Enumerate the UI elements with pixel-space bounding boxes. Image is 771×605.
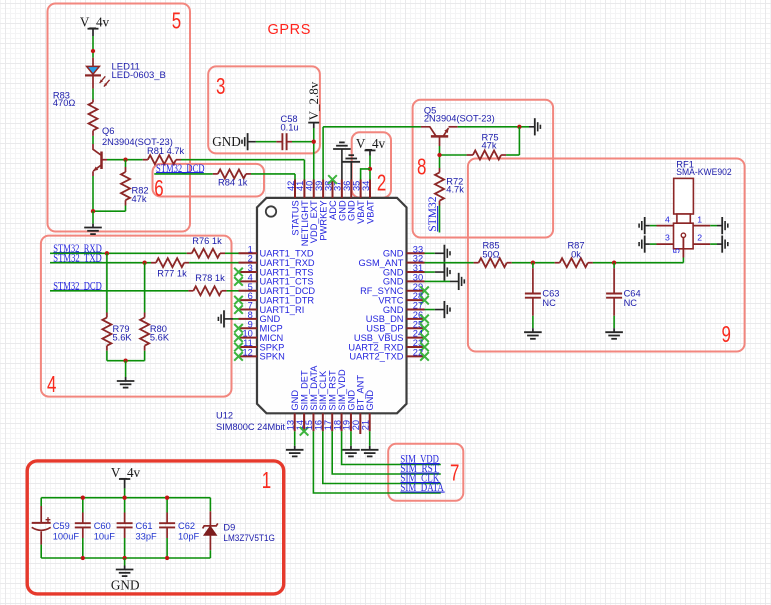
svg-text:4: 4 — [665, 214, 670, 224]
svg-text:V_2.8v: V_2.8v — [306, 81, 321, 120]
svg-text:D9: D9 — [223, 523, 235, 533]
svg-text:470Ω: 470Ω — [53, 98, 76, 108]
svg-text:47k: 47k — [482, 141, 497, 151]
svg-text:NC: NC — [624, 298, 638, 308]
svg-text:2N3904(SOT-23): 2N3904(SOT-23) — [424, 114, 495, 124]
svg-text:10uF: 10uF — [94, 531, 116, 541]
svg-text:NC: NC — [542, 298, 556, 308]
svg-text:V_4v: V_4v — [111, 465, 141, 480]
svg-text:6: 6 — [154, 175, 163, 201]
svg-text:5.6K: 5.6K — [150, 333, 170, 343]
svg-text:34: 34 — [361, 181, 371, 191]
svg-text:R84 1k: R84 1k — [218, 178, 248, 188]
svg-text:2: 2 — [377, 170, 386, 196]
svg-text:R77 1k: R77 1k — [157, 269, 187, 279]
svg-text:C60: C60 — [94, 521, 111, 531]
svg-text:C63: C63 — [542, 289, 559, 299]
svg-text:3: 3 — [216, 73, 225, 99]
svg-text:V_4v: V_4v — [80, 15, 110, 30]
svg-text:C61: C61 — [136, 521, 153, 531]
svg-text:0.1u: 0.1u — [281, 122, 299, 132]
svg-text:GPRS: GPRS — [268, 22, 312, 38]
svg-text:V_4v: V_4v — [356, 136, 386, 151]
svg-text:0k: 0k — [571, 249, 581, 259]
svg-text:SPKN: SPKN — [260, 352, 285, 362]
svg-text:C62: C62 — [178, 521, 195, 531]
svg-text:R81 4.7k: R81 4.7k — [147, 146, 185, 156]
svg-text:100uF: 100uF — [53, 531, 80, 541]
svg-text:C59: C59 — [53, 521, 70, 531]
svg-text:1: 1 — [262, 467, 271, 493]
svg-text:47k: 47k — [132, 194, 147, 204]
svg-text:GND: GND — [365, 390, 375, 411]
svg-text:12: 12 — [242, 347, 252, 357]
svg-text:SMA-KWE902: SMA-KWE902 — [676, 167, 731, 177]
svg-text:5.6K: 5.6K — [113, 333, 133, 343]
svg-text:U12: U12 — [216, 410, 233, 420]
svg-text:21: 21 — [361, 420, 371, 430]
svg-text:UART2_TXD: UART2_TXD — [349, 352, 403, 362]
svg-text:1: 1 — [697, 214, 702, 224]
svg-text:GND: GND — [111, 578, 140, 593]
svg-text:R78 1k: R78 1k — [195, 273, 225, 283]
svg-text:GND: GND — [212, 134, 241, 149]
svg-text:LED-0603_B: LED-0603_B — [112, 70, 166, 81]
svg-text:50Ω: 50Ω — [482, 249, 499, 259]
svg-text:4.7k: 4.7k — [446, 185, 464, 195]
svg-text:9: 9 — [722, 321, 731, 347]
svg-text:10pF: 10pF — [178, 531, 200, 541]
svg-text:Q6: Q6 — [102, 126, 114, 136]
svg-text:3: 3 — [665, 233, 670, 243]
svg-text:C64: C64 — [624, 289, 641, 299]
svg-text:LM3Z7V5T1G: LM3Z7V5T1G — [223, 533, 275, 543]
svg-text:VBAT: VBAT — [365, 200, 375, 224]
svg-text:7: 7 — [450, 460, 459, 486]
svg-text:33pF: 33pF — [136, 531, 158, 541]
svg-text:2: 2 — [697, 233, 702, 243]
svg-text:5: 5 — [671, 248, 681, 253]
svg-text:SIM800C 24Mbit: SIM800C 24Mbit — [216, 422, 285, 432]
svg-text:4: 4 — [47, 371, 57, 397]
svg-text:R76 1k: R76 1k — [192, 236, 222, 246]
svg-text:5: 5 — [172, 7, 181, 33]
svg-text:8: 8 — [417, 153, 426, 179]
